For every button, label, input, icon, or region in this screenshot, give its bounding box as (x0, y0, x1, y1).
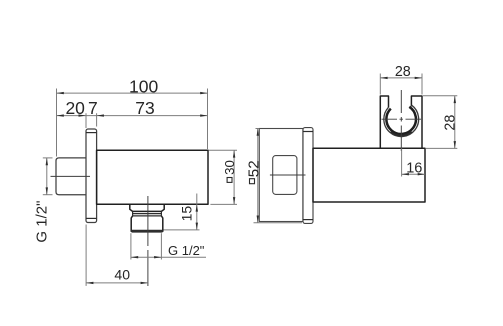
holder C-clip bottom merge band (391, 132, 412, 136)
dim 28 right line (454, 96, 456, 149)
dim 28 right ext bottom (426, 147, 457, 149)
stub centerline (51, 175, 91, 177)
dim 100 extension line left (56, 89, 58, 157)
dim sq52 arrow top (257, 129, 259, 136)
outlet tip thick band (131, 230, 163, 233)
dim 28 top ext left (379, 74, 381, 95)
dim sq30 label (227, 178, 232, 183)
svg-text:40: 40 (114, 267, 130, 283)
svg-text:15: 15 (178, 206, 194, 222)
dim G12 left arrow bottom (46, 187, 48, 194)
dim 15 arrow top (196, 204, 198, 211)
svg-text:G 1/2": G 1/2" (168, 243, 205, 258)
dim 40 arrow left (86, 282, 93, 284)
dim G12 bottom ext right (160, 233, 162, 259)
flange bottom chamfer line (86, 217, 97, 219)
dim 16 arrow left (402, 173, 409, 175)
dim 73 arrow right (200, 114, 207, 116)
right view centerline (270, 174, 306, 176)
dim G12 left line (46, 158, 48, 195)
shower holder bracket outline (380, 96, 422, 148)
dim 20 arrow left (57, 114, 64, 116)
dim 28 right arrow bottom (454, 141, 456, 148)
dim 28 top line (380, 77, 422, 79)
dim sq52 top ext (256, 128, 260, 130)
main body (left view) (97, 150, 208, 204)
dim 20 arrow right (79, 114, 86, 116)
dim sq52 label (250, 179, 255, 184)
dim 100 arrow right (200, 92, 207, 94)
svg-text:30: 30 (222, 160, 237, 175)
dim 100 line (57, 92, 208, 94)
dim 28 right arrow top (454, 96, 456, 103)
dim sq52 line (257, 129, 259, 223)
svg-text:100: 100 (129, 76, 158, 96)
dim sq30 top ext (209, 149, 238, 151)
flange plate (right view) (303, 128, 313, 224)
dim 40 line (86, 282, 148, 284)
in-wall stub rounded square (273, 156, 297, 195)
dim 16 line (402, 173, 425, 175)
dim 28 top ext right (421, 74, 423, 95)
dim sq30 line (233, 150, 235, 204)
svg-text:7: 7 (88, 98, 98, 118)
dim ext flange left (85, 113, 87, 128)
in-wall box (right view) (259, 129, 303, 222)
dim 100 arrow left (57, 92, 64, 94)
dim sq30 arrow bottom (233, 197, 235, 204)
outlet centerline (147, 196, 149, 286)
threaded inlet stub G 1/2 (left view) (56, 158, 86, 195)
dim 28 top arrow left (380, 77, 387, 79)
svg-text:28: 28 (395, 64, 411, 80)
svg-text:16: 16 (406, 160, 422, 176)
dim sq52 bottom ext (254, 222, 303, 224)
svg-text:20: 20 (65, 98, 85, 118)
dim G12 left ext bottom (43, 194, 53, 196)
dim 15 arrow bottom (196, 223, 198, 230)
dim G12 arrow left (131, 256, 138, 258)
outlet collar (130, 204, 164, 211)
dim 16 arrow right (418, 173, 425, 175)
dim sq30 bottom ext (210, 203, 237, 205)
svg-text:28: 28 (443, 115, 459, 131)
body (right view) (313, 148, 425, 202)
dim 73 arrow left (97, 114, 104, 116)
dim sq30 arrow top (233, 150, 235, 157)
svg-text:G 1/2": G 1/2" (33, 201, 50, 243)
dim G12 arrow right (154, 256, 161, 258)
wall flange plate (left view) (86, 129, 97, 223)
dim 28 top arrow right (415, 77, 422, 79)
flange top chamfer line (86, 132, 97, 134)
outlet groove ring (133, 211, 162, 216)
dim ext flange right (96, 113, 98, 126)
svg-text:73: 73 (135, 98, 154, 118)
dim G12 left arrow top (46, 158, 48, 165)
dim G12 bottom line (131, 256, 206, 258)
dim 15 line (196, 194, 198, 230)
holder horizontal centerline (382, 118, 422, 120)
holder C-clip outer arc (384, 105, 419, 136)
dim G12 bottom ext left (130, 233, 132, 259)
dim 40 ext line (85, 225, 87, 286)
holder C-clip inner thick arc (386, 107, 416, 134)
dim 16 left ext (holder centerline extension) (401, 148, 403, 176)
dim 15 ext line (164, 229, 200, 231)
dim 100 extension line right (207, 89, 209, 150)
flange cap line bottom (right view) (303, 219, 313, 221)
holder vertical centerline (400, 90, 402, 151)
flange cap line top (right view) (303, 131, 313, 133)
dim 28 right ext top (423, 95, 457, 97)
dim 40 arrow right (141, 282, 148, 284)
outlet threaded barrel (131, 216, 163, 231)
dim sq52 arrow bottom (257, 216, 259, 223)
dim 20-7-73 line (57, 115, 208, 117)
dim G12 left ext top (43, 157, 53, 159)
svg-text:52: 52 (245, 160, 262, 177)
